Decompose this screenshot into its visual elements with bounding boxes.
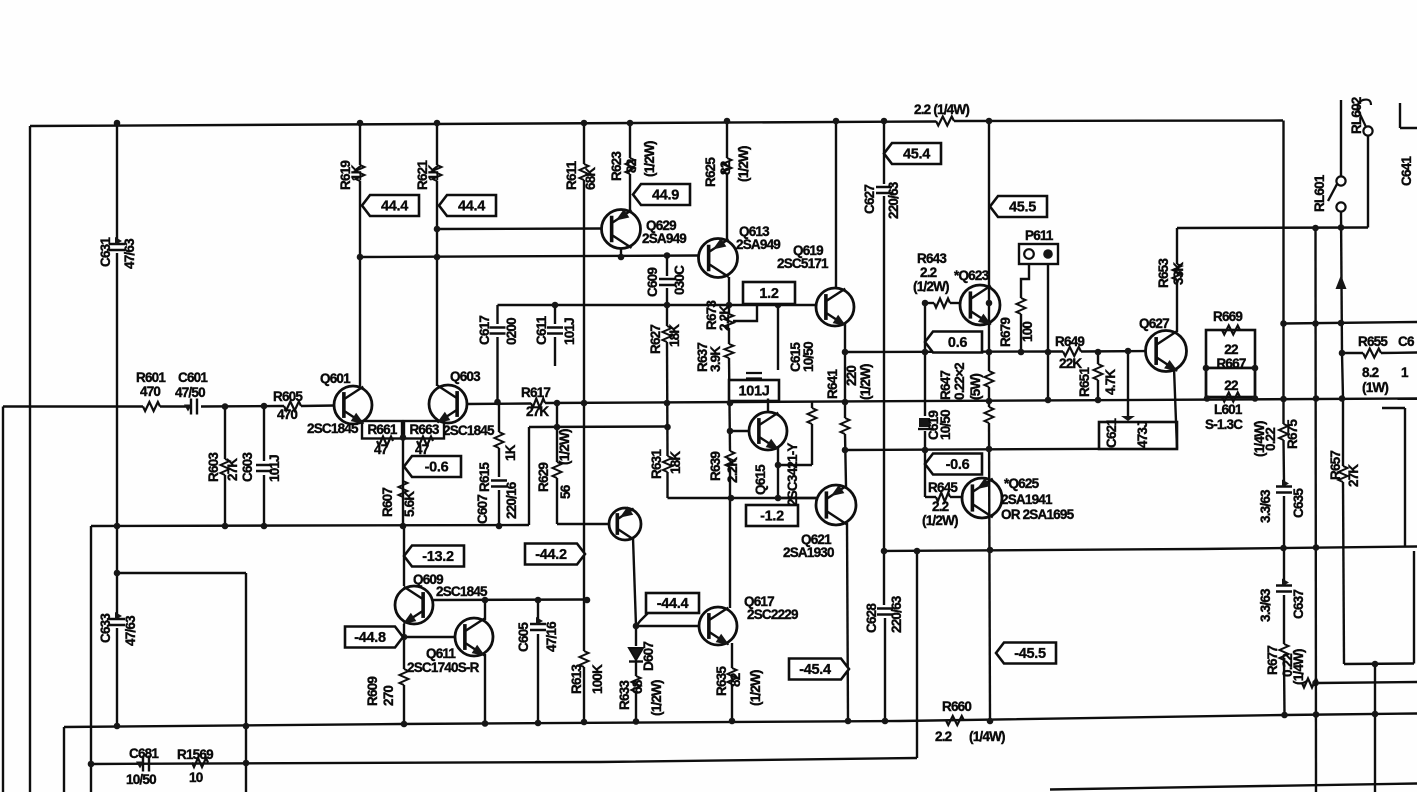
- svg-text:R677: R677: [1265, 646, 1280, 675]
- svg-text:0.6: 0.6: [948, 335, 967, 351]
- svg-text:101J: 101J: [267, 455, 282, 482]
- svg-text:C609: C609: [645, 268, 660, 297]
- svg-text:27K: 27K: [225, 458, 240, 481]
- svg-text:470: 470: [277, 407, 297, 422]
- svg-text:82: 82: [624, 159, 639, 173]
- svg-text:RL601: RL601: [1312, 174, 1327, 212]
- svg-text:2SC1845: 2SC1845: [436, 584, 488, 599]
- svg-text:Q603: Q603: [450, 369, 481, 384]
- svg-text:C607: C607: [475, 495, 490, 524]
- svg-text:R617: R617: [521, 385, 550, 400]
- svg-text:(1/4W): (1/4W): [969, 729, 1005, 744]
- svg-text:C641: C641: [1399, 156, 1414, 186]
- svg-text:-0.6: -0.6: [946, 457, 970, 473]
- svg-text:56: 56: [558, 484, 573, 499]
- svg-text:R645: R645: [928, 480, 958, 495]
- svg-text:2.2: 2.2: [935, 729, 952, 744]
- svg-text:2.2 (1/4W): 2.2 (1/4W): [914, 102, 969, 117]
- svg-text:1.2: 1.2: [759, 286, 778, 302]
- svg-text:(1/2W): (1/2W): [736, 146, 751, 182]
- svg-text:P611: P611: [1025, 228, 1054, 243]
- svg-text:44.4: 44.4: [458, 199, 485, 215]
- svg-text:2.2: 2.2: [932, 499, 949, 514]
- svg-text:18K: 18K: [668, 451, 683, 474]
- svg-text:Q611: Q611: [426, 646, 456, 661]
- svg-text:101J: 101J: [562, 318, 577, 345]
- svg-text:S-1.3C: S-1.3C: [1205, 417, 1243, 432]
- svg-text:100: 100: [1020, 322, 1035, 342]
- svg-text:(1W): (1W): [1362, 380, 1388, 395]
- svg-text:470: 470: [140, 384, 160, 399]
- svg-text:R649: R649: [1055, 334, 1084, 349]
- svg-text:1K: 1K: [349, 164, 364, 181]
- svg-text:2.2K: 2.2K: [725, 457, 740, 483]
- svg-text:10/50: 10/50: [938, 410, 953, 440]
- svg-text:27K: 27K: [526, 404, 549, 419]
- svg-text:R679: R679: [998, 318, 1013, 347]
- svg-text:C628: C628: [864, 603, 879, 633]
- svg-text:R601: R601: [136, 370, 166, 385]
- svg-text:(1/2W): (1/2W): [913, 279, 949, 294]
- svg-text:-0.6: -0.6: [425, 460, 449, 476]
- svg-text:5.6K: 5.6K: [402, 491, 417, 517]
- svg-text:2.2: 2.2: [920, 265, 937, 280]
- svg-text:*Q623: *Q623: [954, 268, 990, 283]
- svg-text:27K: 27K: [1346, 464, 1361, 487]
- svg-text:2SC1845: 2SC1845: [307, 421, 359, 436]
- svg-text:47/16: 47/16: [544, 621, 559, 652]
- svg-text:33K: 33K: [1171, 262, 1186, 285]
- svg-text:-44.2: -44.2: [535, 547, 567, 563]
- svg-text:3.3/63: 3.3/63: [1258, 489, 1273, 523]
- svg-text:Q615: Q615: [753, 464, 768, 495]
- svg-text:R623: R623: [609, 151, 624, 181]
- svg-text:-1.2: -1.2: [760, 509, 784, 525]
- svg-text:R660: R660: [942, 699, 971, 714]
- svg-text:10/50: 10/50: [801, 342, 816, 372]
- svg-text:1K: 1K: [426, 164, 441, 181]
- svg-text:030C: 030C: [672, 265, 687, 295]
- svg-text:47/50: 47/50: [175, 385, 205, 400]
- svg-text:45.4: 45.4: [903, 147, 930, 163]
- svg-text:Q627: Q627: [1139, 316, 1169, 331]
- svg-text:R663: R663: [409, 422, 439, 437]
- svg-text:(5W): (5W): [968, 374, 983, 400]
- svg-text:220/63: 220/63: [886, 181, 901, 219]
- svg-text:C601: C601: [178, 370, 208, 385]
- svg-text:473J: 473J: [1135, 421, 1150, 448]
- svg-text:2SC2229: 2SC2229: [747, 607, 798, 622]
- svg-text:10/50: 10/50: [126, 772, 156, 787]
- svg-text:82: 82: [728, 673, 743, 687]
- svg-text:D607: D607: [641, 642, 656, 671]
- svg-text:C635: C635: [1291, 488, 1306, 518]
- svg-text:47: 47: [415, 442, 429, 457]
- svg-text:R607: R607: [380, 488, 395, 517]
- svg-text:R615: R615: [477, 462, 492, 492]
- svg-text:R605: R605: [273, 389, 303, 404]
- svg-text:R635: R635: [714, 666, 729, 696]
- svg-text:R647: R647: [938, 371, 953, 400]
- svg-text:C603: C603: [240, 452, 255, 482]
- svg-text:47/63: 47/63: [123, 615, 138, 646]
- svg-text:22: 22: [1224, 378, 1238, 393]
- svg-text:C637: C637: [1291, 590, 1306, 619]
- svg-text:C611: C611: [534, 315, 549, 345]
- svg-text:R631: R631: [649, 449, 664, 479]
- svg-text:R675: R675: [1285, 419, 1300, 449]
- svg-text:L601: L601: [1214, 402, 1243, 417]
- svg-text:220/63: 220/63: [889, 595, 904, 633]
- svg-text:(1/2W): (1/2W): [642, 141, 657, 177]
- svg-text:2SC1740S-R: 2SC1740S-R: [407, 660, 480, 675]
- svg-text:C605: C605: [516, 622, 531, 652]
- svg-text:3.3/63: 3.3/63: [1258, 588, 1273, 622]
- svg-text:R651: R651: [1077, 367, 1092, 397]
- svg-text:4.7K: 4.7K: [1103, 369, 1118, 395]
- svg-text:Q601: Q601: [320, 371, 351, 386]
- svg-text:C6: C6: [1398, 334, 1415, 349]
- svg-text:68K: 68K: [583, 167, 598, 190]
- svg-text:2SC3421-Y: 2SC3421-Y: [785, 443, 800, 506]
- svg-text:1K: 1K: [503, 444, 518, 461]
- svg-text:R629: R629: [536, 463, 551, 492]
- svg-text:18K: 18K: [667, 324, 682, 347]
- svg-text:101J: 101J: [738, 384, 769, 400]
- svg-text:68: 68: [630, 679, 645, 694]
- svg-text:0.22: 0.22: [1263, 428, 1278, 451]
- svg-text:(1/2W): (1/2W): [649, 680, 664, 716]
- svg-text:3.9K: 3.9K: [708, 346, 723, 372]
- svg-text:0.22×2: 0.22×2: [952, 363, 967, 400]
- svg-text:2SA1930: 2SA1930: [783, 545, 834, 560]
- svg-text:47: 47: [374, 442, 388, 457]
- svg-text:C621: C621: [1104, 418, 1119, 448]
- svg-text:2.2K: 2.2K: [717, 305, 732, 331]
- svg-text:45.5: 45.5: [1009, 200, 1036, 216]
- svg-text:(1/2W): (1/2W): [922, 513, 958, 528]
- svg-text:220: 220: [844, 366, 859, 386]
- svg-text:10: 10: [189, 770, 203, 785]
- svg-text:-13.2: -13.2: [422, 549, 454, 565]
- svg-text:2SA949: 2SA949: [642, 231, 686, 246]
- svg-text:R627: R627: [648, 325, 663, 354]
- svg-text:(1/2W): (1/2W): [858, 364, 873, 400]
- svg-text:22: 22: [1224, 342, 1238, 357]
- svg-text:RL602: RL602: [1349, 97, 1364, 134]
- svg-text:2SC5171: 2SC5171: [777, 256, 829, 271]
- svg-text:-44.8: -44.8: [354, 630, 386, 646]
- svg-text:(1/4W): (1/4W): [1291, 649, 1306, 685]
- svg-text:R653: R653: [1156, 258, 1171, 288]
- svg-text:OR 2SA1695: OR 2SA1695: [1001, 507, 1075, 522]
- svg-text:R613: R613: [569, 664, 584, 694]
- svg-text:R669: R669: [1213, 309, 1242, 324]
- svg-text:*Q625: *Q625: [1004, 476, 1040, 491]
- svg-text:8.2: 8.2: [1362, 365, 1379, 380]
- svg-text:-45.4: -45.4: [799, 662, 831, 678]
- svg-text:R611: R611: [564, 160, 579, 190]
- svg-text:R639: R639: [708, 452, 723, 481]
- svg-text:R667: R667: [1216, 356, 1245, 371]
- svg-text:C631: C631: [98, 237, 113, 267]
- svg-text:R609: R609: [365, 677, 380, 706]
- svg-text:R643: R643: [917, 251, 947, 266]
- svg-text:2SA949: 2SA949: [736, 237, 780, 252]
- svg-text:R657: R657: [1328, 451, 1343, 480]
- svg-text:100K: 100K: [590, 664, 605, 694]
- svg-text:44.4: 44.4: [381, 199, 408, 215]
- svg-text:0200: 0200: [504, 318, 519, 345]
- svg-text:R603: R603: [206, 452, 221, 482]
- svg-text:R1569: R1569: [177, 747, 213, 762]
- svg-text:R655: R655: [1358, 334, 1388, 349]
- svg-text:2SA1941: 2SA1941: [1001, 492, 1053, 507]
- svg-text:(1/2W): (1/2W): [748, 670, 763, 706]
- svg-text:82: 82: [718, 161, 733, 175]
- svg-text:C681: C681: [129, 746, 159, 761]
- svg-text:-44.4: -44.4: [657, 596, 689, 612]
- svg-text:R641: R641: [825, 369, 840, 399]
- svg-text:C617: C617: [477, 316, 492, 345]
- svg-text:2SC1845: 2SC1845: [443, 423, 495, 438]
- svg-text:220/16: 220/16: [504, 481, 519, 519]
- svg-text:-45.5: -45.5: [1014, 646, 1046, 662]
- svg-text:44.9: 44.9: [652, 188, 679, 204]
- svg-text:270: 270: [381, 686, 396, 706]
- svg-text:C633: C633: [98, 613, 113, 643]
- svg-text:R625: R625: [703, 157, 718, 187]
- svg-text:C627: C627: [862, 185, 877, 214]
- svg-text:47/63: 47/63: [122, 238, 137, 269]
- svg-text:(1/2W): (1/2W): [557, 429, 572, 465]
